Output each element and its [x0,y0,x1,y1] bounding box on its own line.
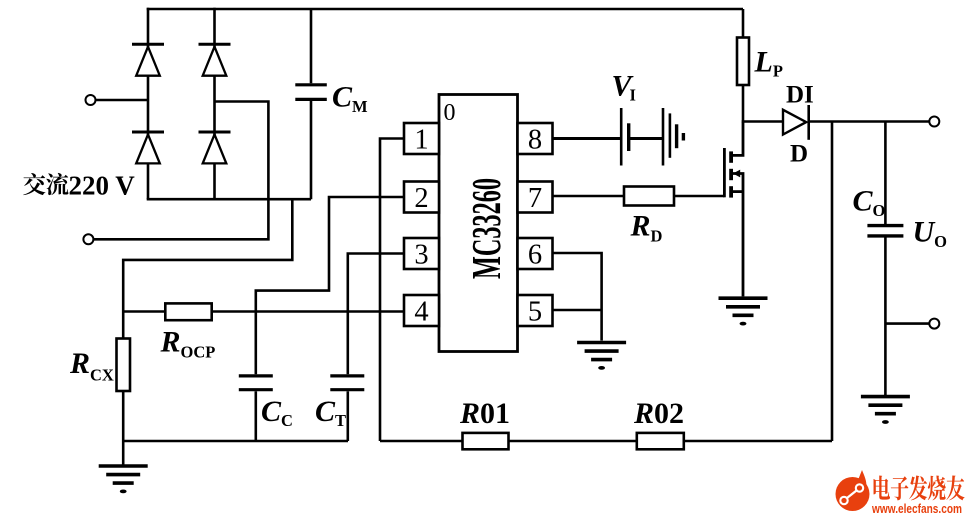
svg-text:2: 2 [414,183,428,214]
svg-text:8: 8 [528,125,542,156]
svg-text:6: 6 [528,240,542,271]
ground right [861,397,910,414]
capacitor CC [239,376,273,441]
wire top bus [147,8,743,11]
node output terminal 2 [929,319,939,329]
wire bridge bottom [147,198,311,201]
wire R02 riser [831,122,834,442]
svg-text:3: 3 [414,240,428,271]
wire bottom bus to CC CT [123,440,348,443]
diode DI [783,105,809,140]
wire bridge bottom to RCX node [123,199,292,339]
svg-text:4: 4 [414,297,428,328]
wire output terminal 2 [885,322,929,325]
wire drain to diode [742,120,783,123]
wire pin3 to CT [348,254,404,375]
wire output bus [809,120,930,123]
wire RCX to ground [122,391,125,466]
diode bridge lower-left [132,132,164,163]
wire bridge right branch [213,8,216,200]
pin 1 box [404,123,439,154]
node input terminal 1 [86,95,96,105]
resistor R01 [463,433,509,449]
wire pin7 to RD [553,195,625,198]
wire feedback bottom R01 R02 [380,440,832,443]
watermark logo elecfans [836,470,870,511]
pin 3 box [404,238,439,269]
diode bridge upper-left [132,44,164,75]
transistor Q1 MOSFET [724,122,743,296]
pin 4 box [404,295,439,326]
pin 6 box [518,238,553,269]
pin 5 box [518,295,553,326]
resistor ROCP [165,303,211,320]
svg-text:R01: R01 [459,397,510,430]
pin 8 box [518,123,553,154]
op-amp U1 IC MC33260 body [439,95,518,352]
svg-text:220 V: 220 V [69,171,136,201]
ground left [99,466,148,483]
svg-text:DI: DI [786,82,814,109]
wire input terminal 2 to bridge [93,102,268,240]
battery VI [621,108,683,166]
svg-text:5: 5 [528,297,542,328]
pin 7 box [518,182,553,213]
svg-text:R02: R02 [633,397,684,430]
svg-text:D: D [790,141,808,168]
pin 2 box [404,182,439,213]
svg-text:MC33260: MC33260 [463,178,509,279]
ground under MOSFET [719,298,768,315]
wire pin1 riser [380,139,404,442]
node output terminal 1 [929,117,939,127]
ground pins 5 6 [577,343,626,360]
resistor RD [624,187,674,206]
wire pin8 to battery [553,137,622,140]
capacitor CO [867,122,903,397]
diode bridge lower-right [199,132,231,163]
node input terminal 2 [83,234,93,244]
label 交流220 V [23,171,135,201]
inductor LP [737,9,749,122]
wire pin4 bus [123,310,404,313]
wire pin6 pin5 to ground [553,253,602,341]
svg-text:www.elecfans.com: www.elecfans.com [871,501,962,516]
resistor R02 [637,433,684,449]
capacitor CT [330,376,364,441]
watermark text 电子发烧友 [874,475,965,500]
wire RD to gate [674,195,724,198]
svg-text:7: 7 [528,183,542,214]
resistor RCX [117,339,131,392]
wire input terminal 1 to bridge [96,99,149,102]
capacitor CM [295,9,327,199]
svg-text:0: 0 [444,100,456,126]
wire bridge left branch [147,8,150,200]
svg-text:1: 1 [414,125,428,156]
wire pin2 to CC [256,197,404,374]
diode bridge upper-right [199,44,231,75]
